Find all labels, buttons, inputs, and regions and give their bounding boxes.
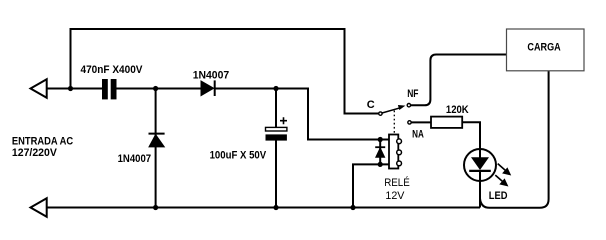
resistor R1 120K xyxy=(431,117,462,128)
svg-text:1N4007: 1N4007 xyxy=(193,69,230,81)
diode D1 1N4007 (series, pointing right) xyxy=(201,81,214,96)
node: junction main wire / top rail xyxy=(68,86,73,91)
svg-text:RELÉ: RELÉ xyxy=(384,176,410,189)
relay coil bumps xyxy=(397,139,402,144)
svg-text:127/220V: 127/220V xyxy=(12,147,58,159)
contact NF xyxy=(407,104,410,107)
wire: NA to resistor xyxy=(412,121,432,123)
node: junction relay coil bottom xyxy=(378,162,383,167)
wire: diode D1 to relay coil branch xyxy=(215,89,389,140)
capacitor C2 100uF X 50V (electrolytic) xyxy=(266,127,287,131)
diode D2 1N4007 (shunt, pointing up) xyxy=(149,133,165,135)
wire: top input to capacitor xyxy=(47,88,102,90)
wire: LED node to CARGA (rounded U) xyxy=(480,71,549,208)
node: junction main wire / vertical diode branch xyxy=(153,86,158,91)
CARGA load box xyxy=(507,29,585,71)
node: junction C2 / bottom rail xyxy=(273,205,278,210)
switch armature xyxy=(382,107,402,113)
svg-text:NF: NF xyxy=(407,88,419,100)
node: junction main wire / electrolytic cap xyxy=(273,86,278,91)
svg-text:LED: LED xyxy=(489,190,508,202)
input terminal top (triangle) xyxy=(31,79,47,98)
svg-text:12V: 12V xyxy=(385,190,405,202)
bottom rail wire xyxy=(47,207,480,209)
diode D3 (freewheel, pointing up) xyxy=(375,146,385,148)
LED light arrows xyxy=(495,164,510,186)
wire: electrolytic capacitor branch xyxy=(275,89,277,128)
polarity + sign xyxy=(280,117,287,124)
node: junction D2 / bottom rail xyxy=(153,205,158,210)
svg-text:NA: NA xyxy=(412,129,424,141)
contact C xyxy=(379,112,382,115)
svg-text:1N4007: 1N4007 xyxy=(118,153,152,165)
wire: capacitor to diode D1 xyxy=(117,88,202,90)
wire: top rail (up, across, down to switch C) xyxy=(71,29,379,114)
relay K1: freewheel diode branch wire xyxy=(379,140,381,165)
node: junction relay wire / bottom rail xyxy=(350,205,355,210)
input terminal bottom (triangle) xyxy=(31,198,47,217)
LED D4 xyxy=(479,149,481,208)
node: junction relay coil top xyxy=(378,137,383,142)
relay K1 coil body xyxy=(389,135,398,169)
svg-text:470nF X400V: 470nF X400V xyxy=(81,64,144,76)
capacitor C1 470nF X400V xyxy=(102,79,108,99)
svg-text:C: C xyxy=(367,99,375,111)
svg-text:ENTRADA AC: ENTRADA AC xyxy=(12,136,73,148)
wire: NF to CARGA xyxy=(411,55,507,106)
dashed actuator link xyxy=(393,111,395,135)
svg-text:120K: 120K xyxy=(446,104,469,116)
wire: relay coil bottom to rail xyxy=(353,164,389,207)
svg-text:CARGA: CARGA xyxy=(527,42,560,54)
wire: resistor to LED xyxy=(462,122,480,149)
contact NA xyxy=(408,121,411,124)
svg-text:100uF X 50V: 100uF X 50V xyxy=(210,149,267,161)
wire: vertical branch for diode D2 xyxy=(155,89,157,208)
